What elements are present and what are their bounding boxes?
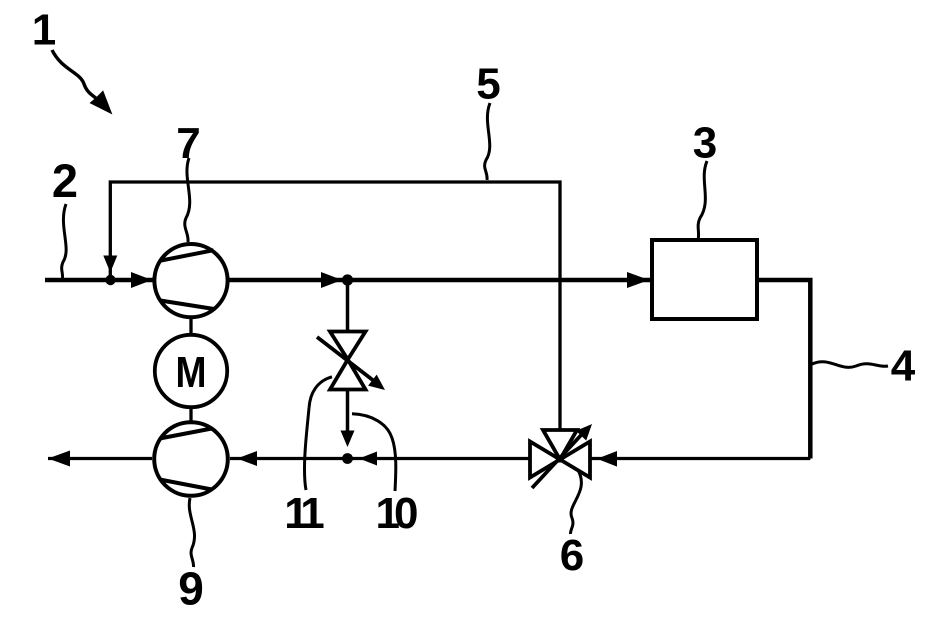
svg-text:9: 9 — [178, 563, 204, 615]
leader line for 7 — [185, 158, 190, 242]
valve 6 (three-way valve) — [530, 424, 592, 488]
wire: bottom return line, valve 6 to junction — [348, 457, 531, 460]
svg-text:4: 4 — [891, 341, 916, 390]
wire: main intake line y=280 left of compressor — [45, 278, 154, 283]
leader line for 2 — [62, 204, 66, 278]
wire: box 3 outlet to right vertical line 4 — [757, 280, 810, 459]
wire: motor to turbine shaft — [189, 407, 192, 424]
wire: bottom return line, valve 6 right segment — [590, 457, 810, 460]
wire: turbine exhaust line — [48, 457, 152, 460]
wire: branch from main line down to valve 11 — [346, 280, 350, 332]
arrow exhaust out (left) — [48, 451, 70, 467]
valve 11 (throttle) — [317, 332, 385, 391]
leader line for 4 — [812, 362, 888, 368]
leader line for 5 — [485, 103, 490, 180]
svg-text:M: M — [176, 348, 207, 397]
svg-text:2: 2 — [52, 154, 78, 207]
wire: recirculation top line 5 — [110, 182, 560, 430]
leader line for 3 — [698, 161, 707, 240]
box 3 (fuel cell) — [652, 240, 757, 319]
node: junction dot below valve 11 — [342, 453, 353, 464]
leader line for 9 — [189, 498, 194, 567]
arrow toward junction dot at (347.5,458.5) — [359, 452, 377, 466]
node: junction dot at recirculation inlet — [105, 275, 115, 285]
leader line for 6 — [570, 470, 581, 534]
node: junction dot at branch to valve 11 — [342, 274, 353, 285]
svg-text:6: 6 — [560, 531, 584, 580]
svg-text:1: 1 — [32, 6, 56, 55]
svg-text:3: 3 — [693, 118, 717, 167]
arrow down into junction dot below valve 11 — [341, 431, 355, 448]
leader arrow for 1 — [52, 50, 111, 113]
arrow before box 3 — [627, 272, 649, 288]
svg-text:10: 10 — [376, 489, 417, 538]
compressor 7 — [154, 244, 227, 317]
wire: compressor to motor shaft — [189, 317, 192, 335]
arrow into valve 6 right side — [597, 451, 617, 467]
wire: bottom return line, junction to turbine — [230, 457, 348, 460]
arrow before junction at x=347 — [321, 272, 342, 288]
svg-text:11: 11 — [284, 489, 324, 538]
svg-text:5: 5 — [476, 59, 500, 108]
arrow into compressor inlet — [131, 272, 152, 288]
wire: valve 11 down to junction — [346, 390, 350, 433]
arrow down into junction dot at (110,280) — [103, 256, 117, 273]
motor M — [155, 335, 227, 407]
turbine 9 — [154, 422, 228, 496]
leader line for 10 — [352, 414, 396, 491]
wire: main intake line y=280 compressor to box 3 — [228, 278, 652, 283]
leader line for 11 — [304, 377, 332, 490]
arrow into turbine right side — [237, 451, 257, 466]
